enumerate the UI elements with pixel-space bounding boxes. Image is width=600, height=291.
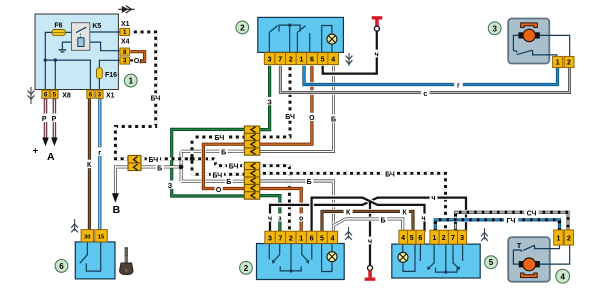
green wire З loop: upper connector pin1 to lower connector pin5 bbox=[172, 129, 245, 196]
svg-text:К: К bbox=[346, 210, 351, 217]
switch 2 (bottom) body bbox=[257, 244, 345, 280]
switch 2 (bottom) internal contacts bbox=[269, 244, 312, 273]
svg-text:4: 4 bbox=[330, 235, 334, 242]
terminal row of switch 2 (bottom): 3 7 2 1 6 5 4 bbox=[265, 231, 338, 243]
label Б on wire to lower connector pin3 bbox=[225, 178, 233, 185]
svg-text:K5: K5 bbox=[92, 23, 101, 30]
svg-text:3: 3 bbox=[460, 235, 464, 242]
terminal X1.1 on block 1 bbox=[120, 28, 130, 36]
lamp in switch 2 (top) bbox=[322, 26, 337, 53]
svg-text:4: 4 bbox=[401, 235, 405, 242]
svg-text:О: О bbox=[134, 58, 140, 65]
svg-text:В: В bbox=[113, 204, 121, 216]
motor 4 internal wiring and switch bbox=[513, 245, 569, 264]
svg-text:2: 2 bbox=[567, 236, 571, 243]
label З on green loop wire bbox=[166, 180, 174, 188]
label БЧ on wire to lower connector pin1 bbox=[227, 162, 240, 169]
label БЧ on long dashed wire to switch 5 bbox=[383, 169, 397, 177]
svg-text:З: З bbox=[168, 183, 173, 190]
svg-text:6: 6 bbox=[418, 235, 422, 242]
power terminal T (top) bbox=[372, 16, 383, 31]
shielding symbol left of ignition terminals (up) bbox=[71, 219, 78, 232]
brown wire K ignition 30 to X1 bottom 6 bbox=[88, 98, 91, 230]
blue wire Г: switch 2 pin1 to motor 3 pin1 bbox=[304, 66, 558, 85]
svg-text:6: 6 bbox=[59, 262, 64, 271]
shielding symbol right of switch 5 (up) bbox=[481, 228, 488, 241]
svg-text:З: З bbox=[267, 99, 272, 106]
svg-text:8: 8 bbox=[123, 49, 127, 56]
terminal row of switch 2 (top): 3 7 2 1 6 5 4 bbox=[264, 53, 338, 65]
svg-text:ч: ч bbox=[421, 216, 425, 223]
svg-text:Б: Б bbox=[307, 179, 312, 186]
inline connector (2 cells) near arrow B bbox=[128, 155, 141, 170]
svg-text:2: 2 bbox=[442, 235, 446, 242]
svg-text:о: о bbox=[299, 216, 303, 223]
arrow head A2 bbox=[51, 138, 58, 147]
svg-text:О: О bbox=[309, 115, 315, 122]
svg-text:ч: ч bbox=[368, 239, 372, 246]
label БЧ right of 2pin connector bbox=[147, 155, 160, 163]
svg-text:7: 7 bbox=[278, 57, 282, 64]
label О on wire to lower connector pin4 bbox=[215, 185, 223, 192]
terminal X8.5 bottom of block 1 bbox=[51, 90, 58, 99]
svg-text:7: 7 bbox=[451, 235, 455, 242]
brown wire К: lower switch pin5 to switch 5 pin5 bbox=[322, 211, 413, 231]
svg-text:F6: F6 bbox=[54, 23, 62, 30]
label о on wire to lower switch pin1 bbox=[297, 214, 305, 222]
svg-text:1: 1 bbox=[299, 235, 303, 242]
label БЧ on wire to lower connector pin2 bbox=[211, 171, 224, 178]
svg-text:Б: Б bbox=[221, 149, 226, 156]
black wire ч: lower switch pin6 over crossover to switch 5 pin6 bbox=[312, 198, 425, 232]
terminal X1.3 bottom of block 1 bbox=[96, 90, 103, 99]
svg-text:1: 1 bbox=[123, 29, 127, 36]
terminal 1 of motor 4 bbox=[554, 230, 564, 245]
white wire Б net at inline connector (to upper pin4 and lower pin3) bbox=[141, 151, 245, 181]
svg-text:5: 5 bbox=[489, 258, 494, 267]
svg-text:1: 1 bbox=[556, 59, 560, 66]
upper inline connector (4 cells) bbox=[244, 126, 259, 155]
svg-text:ГЧ: ГЧ bbox=[507, 218, 516, 225]
svg-text:А: А bbox=[47, 151, 55, 163]
svg-text:Р: Р bbox=[42, 116, 47, 123]
svg-text:БЧ: БЧ bbox=[215, 135, 225, 142]
label К on brown wire (left) bbox=[344, 208, 353, 216]
svg-text:К: К bbox=[402, 210, 407, 217]
label Г on ignition wire bbox=[96, 148, 104, 156]
svg-text:з: з bbox=[278, 216, 282, 223]
blue-black wire ГЧ: switch 5 pin1 to motor 4 pin1 bbox=[435, 220, 559, 232]
terminal X4.3 on block 1 bbox=[120, 57, 130, 65]
terminal X4.8 on block 1 bbox=[120, 48, 130, 56]
motor 4 armature bbox=[519, 258, 540, 271]
svg-text:БЧ: БЧ bbox=[285, 114, 295, 121]
white wire Б: lower switch pin4 to switch 5 pin4 bbox=[333, 219, 402, 232]
terminal group 4 5 6 of switch 5 bbox=[399, 230, 425, 244]
terminal 15 of ignition switch bbox=[95, 230, 108, 242]
wire Б from inline connector down to arrow B bbox=[115, 167, 128, 193]
lamp in switch 2 (bottom) bbox=[322, 244, 337, 272]
shielding symbol left of X8 (down) bbox=[28, 87, 35, 104]
label Б on white wire to switch 5 pin4 bbox=[379, 215, 387, 223]
shielding symbol right of switch 2 bottom (up) bbox=[345, 227, 352, 240]
svg-text:Б: Б bbox=[380, 218, 385, 225]
svg-text:с: с bbox=[423, 91, 427, 98]
label БЧ on vertical dashed wire left bbox=[149, 93, 163, 101]
wire F6 to relay K5 contact and output to X1.1 bbox=[66, 31, 121, 33]
terminal X8.6 bottom of block 1 bbox=[42, 90, 49, 99]
green wire З: switch 2 pin3 down to upper connector pin1 bbox=[259, 66, 269, 130]
svg-text:1: 1 bbox=[299, 57, 303, 64]
svg-text:Р: Р bbox=[52, 116, 57, 123]
continuation arrow symbol top left bbox=[118, 6, 134, 13]
circled number 6 bbox=[55, 260, 68, 273]
terminal 2 of motor 3 bbox=[564, 56, 574, 67]
mounting block body U1 (block 1) bbox=[35, 14, 118, 90]
svg-text:1: 1 bbox=[556, 236, 560, 243]
label P on pink wire 1 bbox=[42, 114, 50, 123]
orange jumper wire X4.8 to X4.3 bbox=[130, 59, 142, 61]
svg-text:6: 6 bbox=[310, 235, 314, 242]
motor 3 body bbox=[508, 19, 549, 64]
svg-text:X4: X4 bbox=[121, 39, 130, 46]
svg-text:2: 2 bbox=[289, 57, 293, 64]
svg-text:+: + bbox=[33, 145, 39, 156]
wire K5 coil to X4.8 bbox=[84, 42, 121, 51]
svg-text:X8: X8 bbox=[62, 93, 71, 100]
label Б right of 2pin connector bbox=[156, 164, 164, 171]
wire K5 coil to internal ground bbox=[62, 42, 77, 50]
svg-text:БЧ: БЧ bbox=[229, 164, 239, 171]
orange wire О: upper connector pin3 to lower connector pin4 bbox=[203, 144, 244, 188]
wire БЧ from X1.1 to inline connector bbox=[115, 32, 155, 159]
wire X4.3 through fuse F16 to X1 bottom pin 3 bbox=[99, 60, 120, 90]
junction dots inside block 1 bbox=[44, 58, 47, 61]
junction dot БЧ bbox=[190, 157, 195, 162]
power terminal T (bottom, inverted) bbox=[365, 265, 376, 280]
svg-text:СЧ: СЧ bbox=[527, 211, 537, 218]
circled number 5 bbox=[485, 256, 498, 269]
label ч on ground tail wire bbox=[366, 237, 374, 245]
label К on brown wire (right) bbox=[400, 208, 409, 216]
motor 3 armature bbox=[519, 29, 540, 41]
grey wire С: switch 2 pin7 to motor 3 pin2 bbox=[280, 66, 569, 93]
orange wire О: lower connector pin4 to lower switch pin1 bbox=[259, 189, 301, 232]
svg-text:2: 2 bbox=[240, 24, 245, 33]
svg-text:Б: Б bbox=[226, 179, 231, 186]
arrow B head bbox=[112, 193, 119, 202]
ignition switch 6 body bbox=[75, 242, 115, 279]
relay K5 bbox=[72, 23, 90, 51]
svg-text:ч: ч bbox=[375, 52, 379, 59]
switch 5 internal contacts bbox=[420, 244, 462, 274]
svg-text:2: 2 bbox=[289, 235, 293, 242]
wire F6 feed bus inside block 1 bbox=[45, 32, 90, 90]
lower inline connector (5 cells) bbox=[244, 162, 259, 199]
svg-text:1: 1 bbox=[129, 77, 134, 86]
switch 2 (top) body bbox=[258, 17, 344, 52]
label СЧ on grey-black wire bbox=[524, 208, 538, 216]
circled number 4 bbox=[556, 269, 570, 283]
grey-black wire СЧ: switch 5 pin7 to motor 4 pin2 bbox=[456, 212, 569, 231]
svg-text:К: К bbox=[87, 162, 92, 169]
svg-text:X1: X1 bbox=[106, 93, 115, 100]
svg-text:6: 6 bbox=[89, 92, 93, 99]
circled number 1 bbox=[124, 74, 137, 87]
svg-text:4: 4 bbox=[331, 57, 335, 64]
label Б on wire from switch 2 pin4 bbox=[330, 114, 338, 122]
circled number 2 (bottom) bbox=[240, 261, 253, 274]
black wire ч: power T to switch 2 pin5 bbox=[323, 31, 377, 73]
terminal X1.6 bottom of block 1 bbox=[87, 90, 94, 99]
label С on grey wire to motor 3 bbox=[421, 89, 430, 97]
arrow head A1 bbox=[42, 138, 49, 147]
terminal 30 of ignition switch bbox=[81, 230, 94, 242]
svg-text:5: 5 bbox=[53, 92, 57, 99]
svg-text:2: 2 bbox=[244, 264, 249, 273]
svg-text:г: г bbox=[457, 83, 460, 90]
label З on wire from switch 2 pin3 bbox=[266, 97, 274, 105]
svg-text:ч: ч bbox=[268, 216, 272, 223]
svg-text:БЧ: БЧ bbox=[151, 95, 161, 102]
label ч on black wire to switch 5 pin6 bbox=[420, 214, 428, 222]
svg-text:БЧ: БЧ bbox=[212, 172, 222, 179]
label БЧ on wire from switch 2 pin2 bbox=[283, 112, 296, 120]
svg-text:6: 6 bbox=[310, 57, 314, 64]
svg-text:Т: Т bbox=[517, 241, 522, 250]
green wire З: lower connector pin5 to lower switch pin7 bbox=[259, 196, 280, 232]
black wire ч: crossover down to ground terminal bbox=[369, 201, 371, 265]
white wire Б: lower connector pin3 to lower switch pin4 bbox=[259, 181, 333, 231]
label О on wire from switch 2 pin6 bbox=[308, 113, 316, 121]
svg-text:5: 5 bbox=[410, 235, 414, 242]
svg-text:5: 5 bbox=[320, 235, 324, 242]
circled number 2 (top) bbox=[236, 21, 249, 34]
svg-text:F16: F16 bbox=[105, 72, 117, 79]
svg-text:г: г bbox=[98, 150, 101, 157]
pink wire P from X8.6 to arrow A bbox=[44, 98, 48, 138]
orange wire О: switch 2 pin6 down to upper connector pin3 bbox=[259, 66, 312, 144]
ground symbol inside block 1 bbox=[59, 50, 67, 52]
label O on jumper bbox=[134, 57, 140, 64]
svg-text:БЧ: БЧ bbox=[385, 172, 395, 179]
label Б on wire to lower switch pin4 bbox=[305, 177, 313, 185]
lamp in switch 5 bbox=[398, 244, 415, 271]
svg-text:БЧ: БЧ bbox=[149, 157, 159, 164]
label Б on wire to upper connector pin4 bbox=[220, 148, 228, 155]
label ч on wire from power T bbox=[373, 50, 380, 58]
svg-text:3: 3 bbox=[123, 58, 127, 65]
fuse F16 bbox=[97, 68, 103, 79]
label з on wire to lower switch pin7 bbox=[276, 214, 284, 222]
dashed БЧ net at inline connector (to upper pin2, lower pin1, lower pin2) bbox=[141, 137, 245, 174]
circled number 3 bbox=[488, 22, 501, 35]
dashed wire БЧ: switch 2 pin2 down to upper connector pin2 bbox=[259, 66, 290, 137]
svg-text:7: 7 bbox=[278, 235, 282, 242]
switch 5 body bbox=[392, 244, 480, 278]
svg-text:3: 3 bbox=[492, 24, 497, 33]
label K on ignition wire bbox=[85, 160, 94, 168]
svg-text:5: 5 bbox=[321, 57, 325, 64]
svg-text:6: 6 bbox=[44, 92, 48, 99]
svg-text:3: 3 bbox=[268, 57, 272, 64]
svg-text:О: О bbox=[216, 187, 222, 194]
label Г on blue wire to motor 3 bbox=[454, 81, 463, 89]
svg-text:3: 3 bbox=[268, 235, 272, 242]
label P on pink wire 2 bbox=[51, 114, 59, 123]
pink wire P from X8.5 to arrow A bbox=[53, 98, 57, 138]
white wire Б: switch 2 pin4 down to upper connector pin4 bbox=[259, 66, 333, 152]
svg-text:1: 1 bbox=[433, 235, 437, 242]
label ч on wire to lower switch pin3 bbox=[266, 214, 273, 222]
svg-text:ч: ч bbox=[431, 195, 435, 202]
svg-text:X1: X1 bbox=[121, 21, 130, 28]
svg-text:15: 15 bbox=[98, 235, 105, 241]
terminal 1 of motor 3 bbox=[553, 56, 563, 67]
svg-text:Б: Б bbox=[331, 117, 336, 124]
shielding symbol right of switch 2 top (down) bbox=[346, 53, 353, 66]
label ГЧ on blue-black wire bbox=[504, 216, 518, 224]
fuse F6 bbox=[52, 30, 66, 36]
label ч on long black wire over crossover bbox=[430, 193, 438, 201]
svg-text:Б: Б bbox=[157, 165, 162, 172]
ignition switch 6 internal contacts bbox=[80, 242, 101, 271]
svg-text:3: 3 bbox=[98, 92, 102, 99]
motor 4 orange cap bbox=[521, 273, 538, 278]
svg-text:4: 4 bbox=[560, 272, 565, 281]
label БЧ on wire to upper connector pin2 bbox=[213, 133, 226, 140]
black wire ч: lower switch pin3 over crossover to switch 5 pin3 bbox=[270, 198, 466, 232]
motor 4 body bbox=[508, 237, 550, 282]
terminal 2 of motor 4 bbox=[564, 230, 573, 245]
blue wire Г ignition 15 to X1 bottom 3 bbox=[98, 98, 101, 230]
svg-text:2: 2 bbox=[567, 59, 571, 66]
dashed wire БЧ: lower connector pin1 to lower switch pin2 bbox=[259, 166, 289, 232]
svg-text:30: 30 bbox=[84, 235, 90, 241]
motor 3 internal wiring and switch bbox=[513, 35, 569, 57]
junction dot Б bbox=[179, 165, 184, 170]
dashed wire БЧ long: lower connector pin2 to switch 5 pin2 bbox=[259, 173, 445, 231]
switch 2 (top) internal contacts bbox=[269, 24, 309, 53]
terminal group 1 2 7 3 of switch 5 bbox=[430, 230, 467, 244]
key symbol bbox=[120, 247, 133, 275]
motor 3 orange cap bbox=[521, 23, 538, 28]
